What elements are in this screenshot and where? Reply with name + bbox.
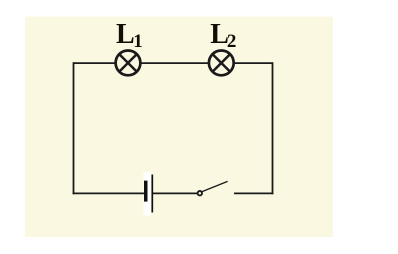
wire: top (right of L2) <box>233 62 273 64</box>
battery negative plate (short thick) <box>144 181 148 202</box>
lamp L1 (circle with X) <box>116 51 141 76</box>
wire: top (between L1 and L2) <box>139 62 210 64</box>
battery white backing strip <box>144 172 152 216</box>
svg-text:1: 1 <box>133 31 143 52</box>
cream panel background <box>25 17 333 238</box>
wire: bottom middle (battery to switch) <box>152 192 197 194</box>
wire: right vertical <box>272 62 274 194</box>
wire: top (left of L1) <box>74 62 118 64</box>
svg-text:2: 2 <box>227 31 237 52</box>
wire: bottom right (switch to corner) <box>234 192 273 194</box>
battery positive plate (long thin) <box>151 175 153 213</box>
wire: bottom left (corner to battery) <box>73 192 145 194</box>
svg-text:L: L <box>116 19 135 50</box>
switch hinge circle <box>198 191 202 195</box>
switch lever (open) <box>202 181 228 191</box>
wire: left vertical <box>73 62 75 194</box>
lamp L2 (circle with X) <box>209 51 234 76</box>
